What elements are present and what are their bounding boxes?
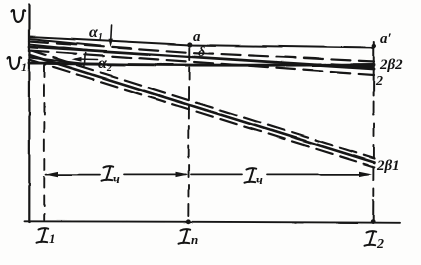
vertical line at I2 (solid bottom)	[372, 200, 374, 222]
vertical dashed line at In	[188, 48, 189, 219]
upper solid line 2beta2	[30, 47, 375, 69]
label I1	[37, 228, 49, 242]
svg-text:2β1: 2β1	[376, 158, 400, 174]
overdraw stroke left bundle 1	[30, 39, 101, 46]
overdraw stroke right bundle mass	[332, 64, 373, 67]
dimension arrow shaft third segment	[191, 173, 242, 175]
svg-text:α1: α1	[89, 24, 103, 43]
arrowhead left at I1	[45, 172, 58, 177]
y-axis U	[28, 5, 30, 223]
overdraw stroke left bundle 2	[30, 44, 89, 50]
svg-text:2β2: 2β2	[379, 57, 403, 73]
svg-text:2: 2	[375, 74, 383, 89]
label Ich right	[245, 168, 257, 182]
dot at I2 on x-axis	[371, 219, 376, 224]
vertical dashed line at I1	[43, 66, 45, 220]
svg-text:n: n	[191, 232, 198, 247]
point a dot	[187, 42, 192, 47]
label In	[179, 229, 191, 243]
label I2	[365, 231, 377, 245]
x-axis I	[25, 221, 401, 223]
steep solid line 2beta1	[30, 55, 375, 163]
svg-text:2: 2	[376, 237, 384, 252]
horizontal solid line U1	[30, 63, 375, 65]
alpha1 arrowhead down	[109, 39, 113, 47]
steep dashed line upper	[30, 50, 375, 159]
label U	[12, 10, 26, 22]
svg-text:1: 1	[49, 231, 56, 246]
svg-text:a: a	[193, 29, 201, 45]
svg-text:a′: a′	[380, 31, 392, 47]
label U1	[8, 57, 22, 69]
arrowhead right at I2	[359, 172, 372, 177]
overdraw stroke left bundle 3	[30, 58, 91, 65]
alpha2 arrowhead left	[72, 57, 82, 62]
dot at In on x-axis	[186, 219, 191, 224]
dimension arrow shaft fourth segment	[267, 173, 368, 175]
line a-a' solid	[30, 37, 375, 49]
alpha2 arrow shaft	[75, 58, 98, 61]
svg-text:α2: α2	[98, 55, 112, 74]
svg-text:ч: ч	[113, 171, 120, 186]
alpha1 arrow	[110, 25, 113, 42]
arrowhead right at In	[176, 172, 189, 177]
vertical line at I2 (solid top)	[373, 42, 375, 95]
label Ich left	[102, 166, 114, 180]
point a' dot	[372, 44, 376, 48]
svg-text:ч: ч	[256, 172, 263, 187]
vertical line at I2 (dashed middle)	[372, 101, 374, 196]
dimension arrow shaft left segment	[46, 174, 100, 176]
upper dashed line	[30, 41, 375, 62]
svg-text:1: 1	[21, 60, 27, 74]
steep dashed line lower	[30, 60, 375, 168]
lower dashed of upper bundle	[30, 51, 375, 75]
dimension arrow shaft second segment	[124, 173, 186, 175]
alpha2 tick	[83, 53, 86, 67]
svg-text:δ: δ	[198, 45, 205, 60]
